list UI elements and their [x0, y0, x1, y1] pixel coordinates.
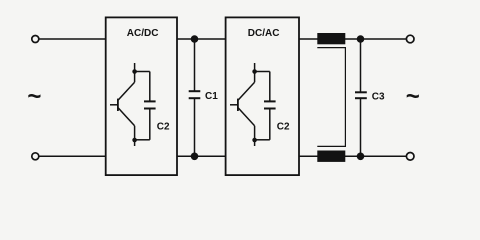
svg-text:AC/DC: AC/DC [127, 28, 159, 39]
svg-text:DC/AC: DC/AC [248, 28, 280, 39]
svg-text:C2: C2 [277, 121, 290, 132]
svg-text:~: ~ [27, 83, 41, 110]
svg-text:C1: C1 [205, 91, 218, 102]
svg-text:~: ~ [406, 83, 420, 110]
svg-text:C3: C3 [372, 92, 385, 103]
svg-text:C2: C2 [157, 121, 170, 132]
